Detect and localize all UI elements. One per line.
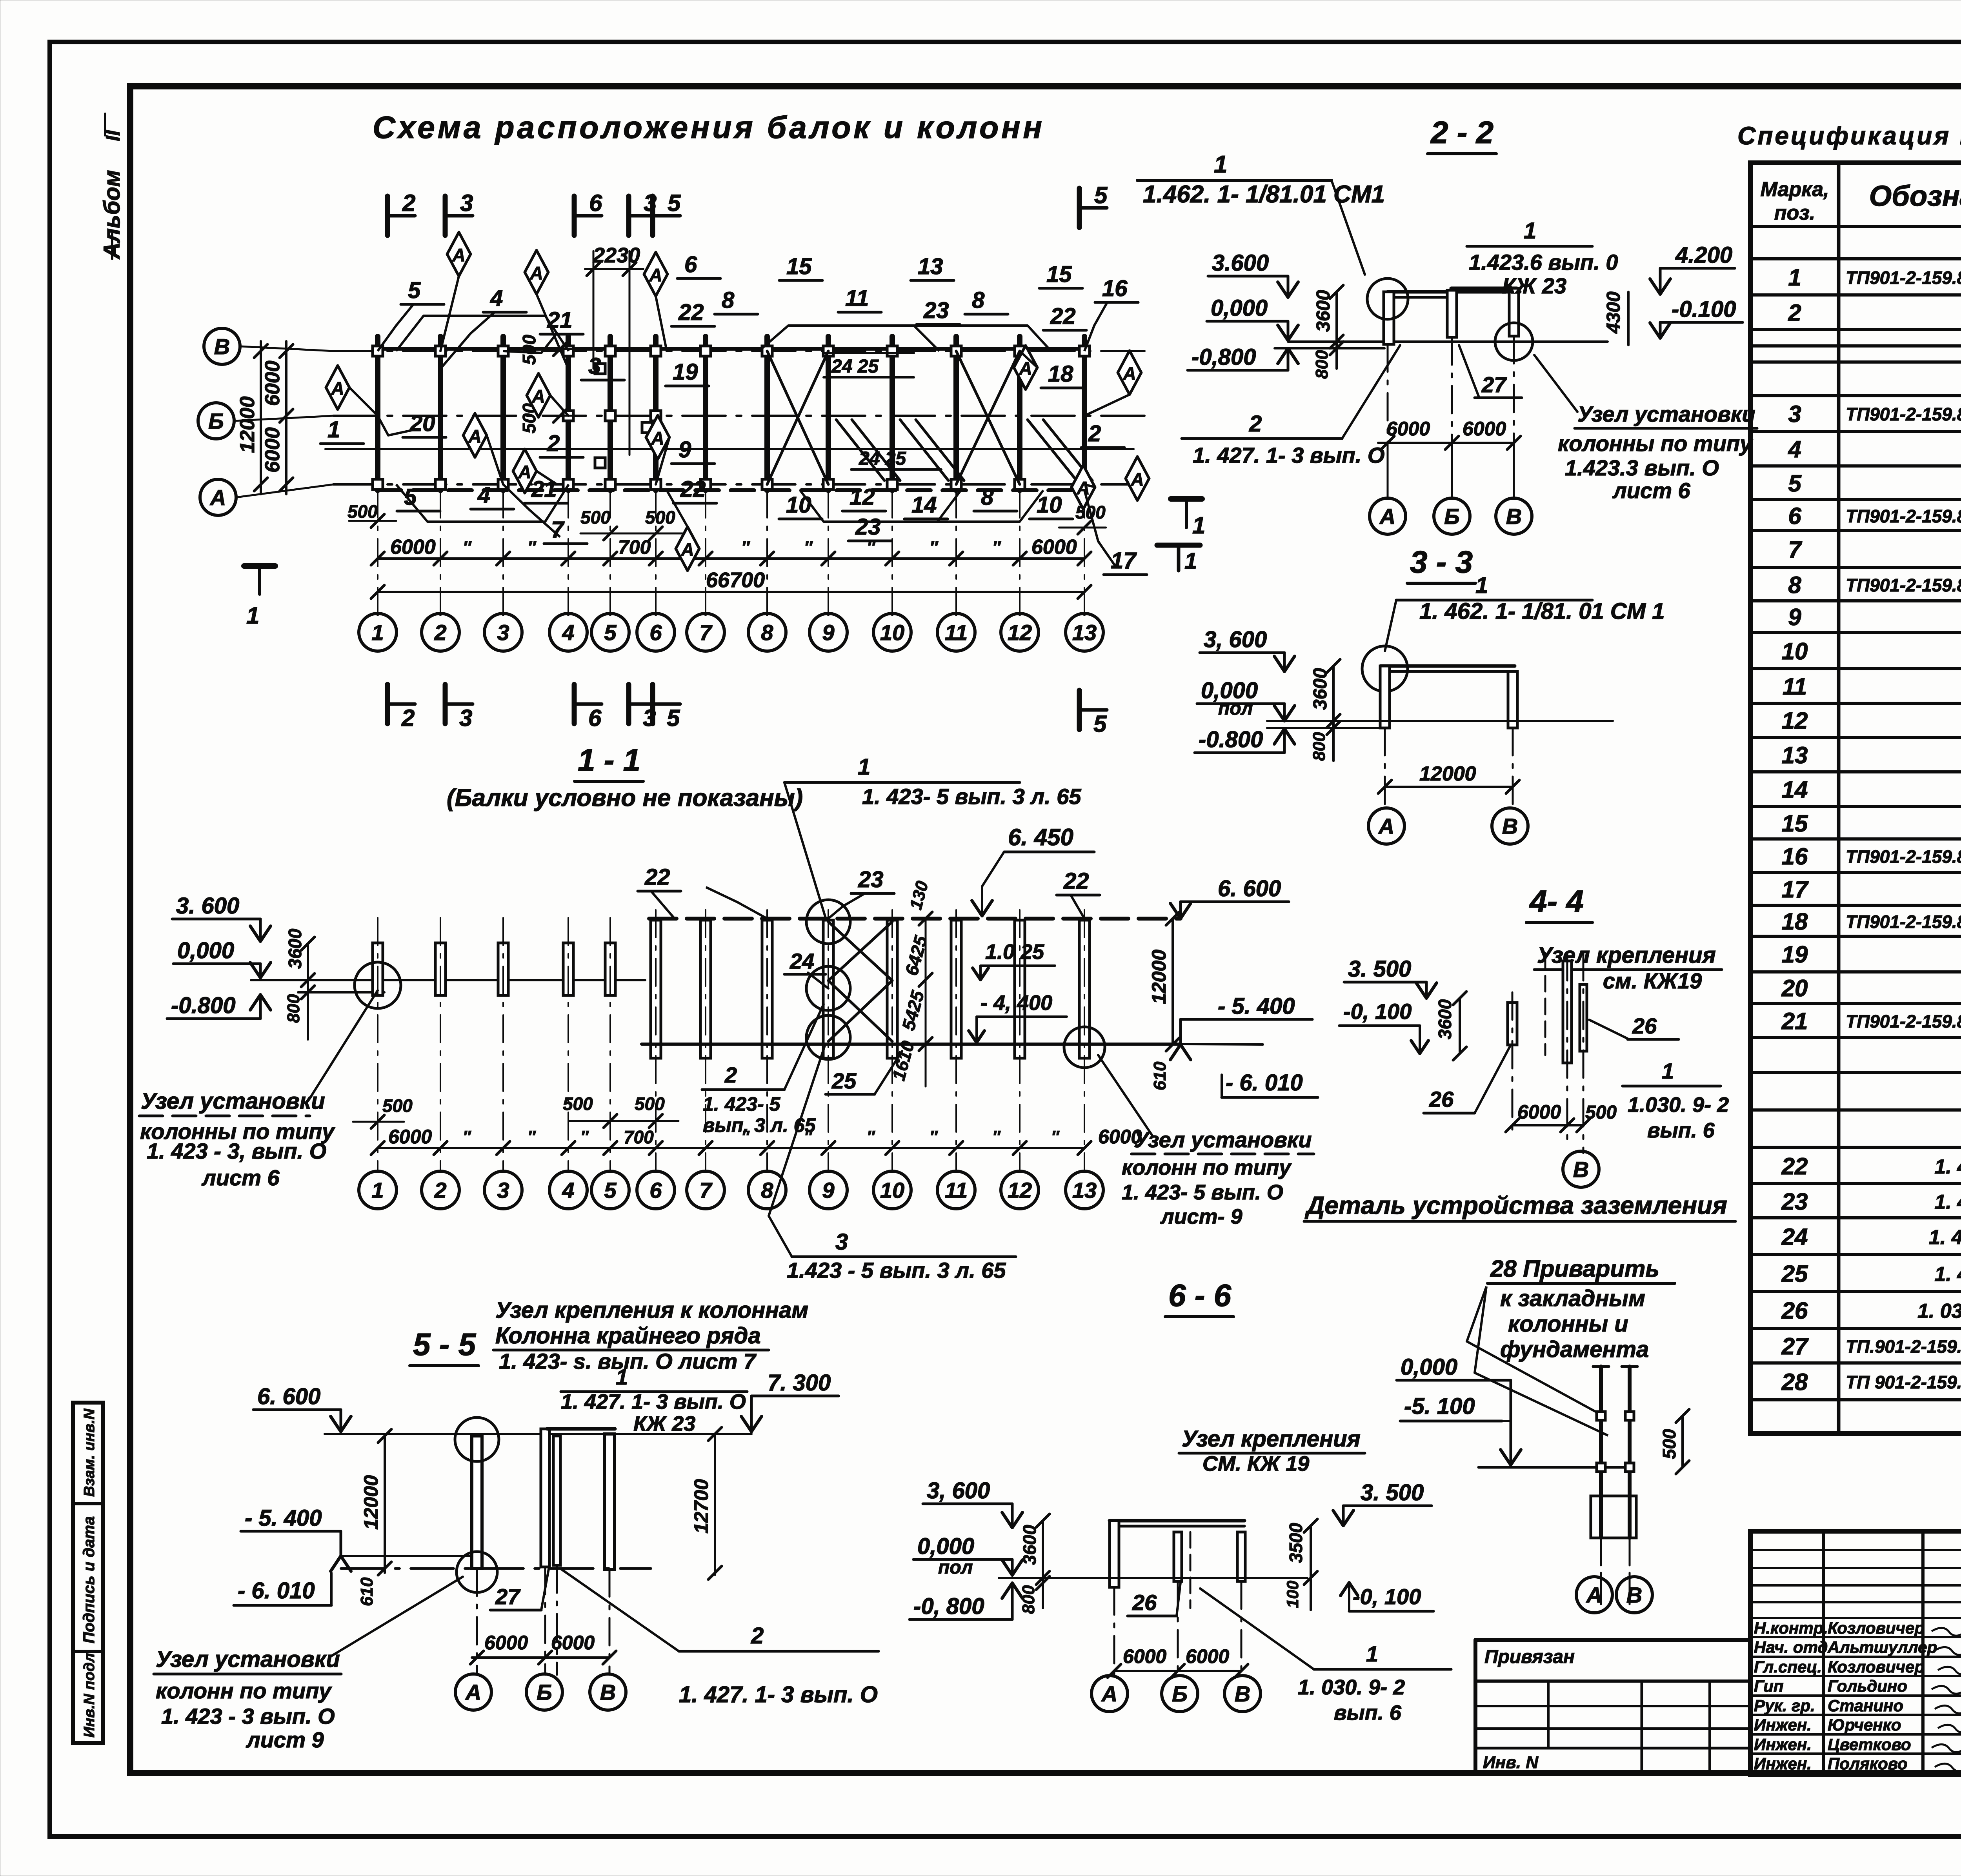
svg-text:18: 18: [1782, 908, 1808, 935]
section 2-2 level line 0.000: [1288, 340, 1608, 343]
svg-text:1: 1: [616, 1365, 628, 1389]
svg-text:1.0 25: 1.0 25: [985, 940, 1044, 964]
svg-text:610: 610: [357, 1577, 377, 1606]
svg-text:10: 10: [1782, 638, 1808, 664]
svg-text:ТП.901-2-159.87-КЖ.И. 8010: ТП.901-2-159.87-КЖ.И. 8010: [1846, 1336, 1961, 1357]
grounding bubbles А В: [1576, 1577, 1612, 1613]
svg-text:23: 23: [1781, 1188, 1808, 1215]
svg-text:-0.100: -0.100: [1672, 297, 1736, 322]
plan grid column line 6: [653, 337, 659, 490]
svg-text:1: 1: [1788, 264, 1801, 291]
svg-text:А: А: [1378, 814, 1394, 839]
svg-text:28: 28: [1781, 1369, 1808, 1395]
section 5-5 dims 6000 6000: [472, 1656, 609, 1659]
svg-text:-0.800: -0.800: [171, 993, 235, 1018]
svg-text:4: 4: [490, 286, 503, 311]
svg-text:14: 14: [1782, 777, 1808, 803]
svg-text:3: 3: [497, 620, 509, 645]
svg-text:″: ″: [930, 538, 939, 557]
svg-text:Деталь устройства заземлени: Деталь устройства заземления: [1304, 1191, 1727, 1219]
svg-text:1: 1: [858, 754, 870, 780]
grounding column bars: [1599, 1367, 1603, 1538]
plan grid column line 7: [703, 337, 708, 490]
svg-text:В: В: [1506, 504, 1522, 529]
svg-text:1. 423 - 3, вып. О: 1. 423 - 3, вып. О: [147, 1139, 326, 1163]
svg-text:12: 12: [1008, 620, 1032, 645]
svg-text:Инжен.: Инжен.: [1754, 1716, 1812, 1734]
svg-text:12000: 12000: [360, 1475, 382, 1530]
svg-text:лист 6: лист 6: [1612, 478, 1691, 503]
svg-text:В: В: [600, 1680, 616, 1705]
plan grid column line 5: [608, 337, 613, 490]
section 5-5 dim 12000: [384, 1434, 386, 1573]
svg-text:27: 27: [1781, 1333, 1809, 1359]
svg-text:Б: Б: [1444, 504, 1460, 529]
svg-text:2 - 2: 2 - 2: [1430, 115, 1493, 150]
section 2-2 node circle right: [1495, 323, 1533, 360]
svg-text:7: 7: [699, 620, 713, 645]
svg-text:Альтшуллер: Альтшуллер: [1827, 1638, 1937, 1656]
svg-text:17: 17: [1782, 876, 1809, 903]
svg-text:500: 500: [519, 335, 539, 365]
svg-text:800: 800: [284, 994, 303, 1023]
section 5-5 beam top: [547, 1427, 615, 1431]
svg-text:2230: 2230: [593, 244, 640, 267]
plan row bubble Б: [198, 403, 234, 439]
svg-text:11: 11: [945, 1178, 968, 1203]
svg-text:2: 2: [434, 620, 446, 645]
svg-text:Марка,: Марка,: [1761, 178, 1829, 201]
title block outer: [1750, 1531, 1961, 1775]
svg-text:20: 20: [1781, 975, 1808, 1001]
plan X brace bay 8-9: [767, 351, 828, 484]
svg-text:3600: 3600: [285, 928, 305, 969]
svg-text:25: 25: [831, 1068, 857, 1093]
svg-text:колонны и: колонны и: [1508, 1311, 1628, 1337]
svg-text:3: 3: [588, 353, 601, 379]
plan flag leaders: [440, 276, 459, 351]
section 1-1 bubbles 1-13: [359, 1171, 397, 1209]
svg-text:2: 2: [1088, 421, 1101, 446]
section 6-6 left column: [1110, 1521, 1119, 1587]
svg-text:-0, 100: -0, 100: [1353, 1584, 1421, 1609]
svg-text:3: 3: [459, 705, 472, 731]
svg-text:Узел крепления к колоннам: Узел крепления к колоннам: [495, 1297, 808, 1323]
svg-text:1: 1: [246, 602, 259, 629]
svg-text:6000: 6000: [1186, 1645, 1229, 1667]
svg-text:к закладным: к закладным: [1500, 1286, 1645, 1311]
svg-text:2: 2: [434, 1178, 446, 1203]
svg-text:1. 423- 5 вып. О: 1. 423- 5 вып. О: [1122, 1181, 1283, 1204]
plan node square row Б: [605, 411, 615, 421]
svg-text:1. 427. 1- 3 вып. О: 1. 427. 1- 3 вып. О: [561, 1390, 746, 1414]
svg-text:4.200: 4.200: [1675, 242, 1732, 268]
svg-text:12: 12: [1782, 708, 1808, 734]
section 2-2 column right: [1509, 288, 1519, 336]
svg-text:500: 500: [382, 1095, 413, 1116]
svg-text:21: 21: [531, 477, 557, 502]
svg-text:1: 1: [1184, 548, 1197, 574]
plan bottom-right cut mark 5: [1077, 690, 1082, 730]
svg-text:колонны по типу: колонны по типу: [1558, 431, 1753, 456]
svg-text:66700: 66700: [706, 568, 765, 592]
svg-text:Б: Б: [1172, 1681, 1188, 1706]
svg-text:3: 3: [497, 1178, 509, 1203]
svg-text:ТП901-2-159.87. КЖ.И. 8300: ТП901-2-159.87. КЖ.И. 8300: [1846, 575, 1961, 595]
section 5-5 dim 12700: [714, 1434, 716, 1575]
grounding footing box: [1591, 1496, 1636, 1538]
svg-text:Гольдино: Гольдино: [1828, 1677, 1907, 1695]
svg-text:16: 16: [1782, 843, 1808, 870]
plan leader polylines: [378, 304, 413, 351]
svg-text:1: 1: [371, 620, 384, 645]
svg-text:9: 9: [679, 437, 691, 462]
plan grid column line 9: [826, 337, 831, 490]
plan row line А: [333, 483, 1155, 486]
svg-text:″: ″: [992, 1127, 1001, 1146]
svg-text:6: 6: [589, 190, 602, 216]
section 6-6 floor line: [999, 1577, 1307, 1579]
svg-text:В: В: [214, 334, 230, 359]
svg-text:колонн по типу: колонн по типу: [156, 1678, 332, 1703]
svg-text:8: 8: [761, 620, 773, 645]
svg-text:ТП901-2-159.87-КЖ.И. 8500: ТП901-2-159.87-КЖ.И. 8500: [1846, 912, 1961, 932]
svg-text:13: 13: [1072, 620, 1097, 645]
svg-text:22: 22: [1781, 1153, 1808, 1179]
svg-text:22: 22: [1050, 304, 1076, 329]
section 5-5 level line bottom: [341, 1555, 472, 1557]
svg-text:Юрченко: Юрченко: [1828, 1716, 1901, 1734]
svg-text:3.600: 3.600: [1212, 250, 1269, 276]
svg-text:А: А: [1122, 363, 1136, 384]
svg-text:″: ″: [528, 1127, 536, 1146]
svg-text:6. 600: 6. 600: [1218, 876, 1281, 901]
svg-text:4: 4: [477, 482, 490, 508]
plan X brace bay 11-12: [956, 351, 1020, 484]
svg-text:А: А: [1076, 478, 1090, 498]
grounding ground line: [1479, 1466, 1629, 1469]
svg-text:Н.контр.: Н.контр.: [1754, 1619, 1828, 1637]
plan dim row 66700: [378, 591, 1084, 593]
section 6-6 right column: [1237, 1532, 1245, 1581]
section 3-3 node circle: [1362, 646, 1408, 691]
section 1-1 node circle col1: [355, 962, 401, 1008]
svg-text:А: А: [649, 265, 662, 285]
plan upper chord polyline left: [396, 316, 569, 351]
svg-text:500: 500: [1585, 1102, 1617, 1123]
svg-text:10: 10: [786, 492, 811, 518]
section 6-6 dim 3600 800: [1042, 1521, 1044, 1608]
svg-text:А: А: [331, 378, 344, 398]
svg-text:5: 5: [1093, 711, 1107, 737]
svg-text:5: 5: [408, 278, 421, 303]
section 2-2 column mid pair: [1447, 290, 1457, 337]
svg-text:19: 19: [1782, 941, 1808, 968]
svg-text:7: 7: [699, 1178, 713, 1203]
svg-text:А: А: [518, 462, 531, 482]
svg-text:6000: 6000: [1031, 536, 1077, 559]
svg-text:6. 600: 6. 600: [257, 1384, 320, 1409]
plan cut mark 1 left: [244, 563, 275, 569]
spec table outer: [1750, 163, 1961, 1434]
svg-text:1. 427. 1- 3 вып. О: 1. 427. 1- 3 вып. О: [679, 1682, 878, 1707]
svg-text:(Балки условно не показаны): (Балки условно не показаны): [447, 784, 803, 812]
svg-text:0,000: 0,000: [1401, 1354, 1457, 1380]
svg-text:5: 5: [604, 620, 617, 645]
svg-text:2: 2: [724, 1063, 737, 1087]
svg-text:500: 500: [580, 507, 611, 528]
svg-text:А: А: [209, 485, 226, 510]
svg-text:27: 27: [1481, 372, 1507, 397]
svg-text:8: 8: [722, 287, 735, 313]
svg-text:ТП901-2-159.87-КЖ.И.8100-03: ТП901-2-159.87-КЖ.И.8100-03: [1846, 1011, 1961, 1032]
svg-text:23: 23: [855, 514, 881, 540]
section 2-2 beam right: [1451, 287, 1517, 290]
spec table row lines: [1750, 225, 1961, 228]
svg-text:1: 1: [371, 1178, 384, 1203]
svg-text:22: 22: [680, 477, 706, 502]
svg-text:7: 7: [1788, 537, 1802, 563]
title block signature columns: [1822, 1531, 1825, 1772]
svg-text:3. 500: 3. 500: [1348, 956, 1411, 982]
svg-text:610: 610: [1150, 1061, 1170, 1090]
svg-text:1. 423 - 3 вып. О: 1. 423 - 3 вып. О: [161, 1704, 335, 1729]
section 1-1 dim row: [378, 1147, 1084, 1149]
svg-text:20: 20: [409, 411, 435, 436]
svg-text:колонн по типу: колонн по типу: [1122, 1156, 1292, 1179]
svg-text:А: А: [1586, 1583, 1602, 1607]
svg-text:1. 423- 5 вып. 3 л. 65: 1. 423- 5 вып. 3 л. 65: [862, 784, 1081, 809]
svg-text:″: ″: [741, 1127, 750, 1146]
plan grid column line 1: [375, 337, 380, 490]
plan grid column line 4: [566, 337, 571, 490]
section 1-1 top beam dashed: [649, 917, 1181, 921]
svg-text:5: 5: [667, 705, 680, 731]
svg-text:15: 15: [1782, 810, 1808, 837]
svg-text:Колонна крайнего ряда: Колонна крайнего ряда: [495, 1323, 761, 1348]
svg-text:23: 23: [858, 867, 884, 892]
svg-text:8: 8: [981, 484, 994, 510]
svg-text:28 Приварить: 28 Приварить: [1490, 1256, 1659, 1282]
svg-text:5: 5: [404, 484, 417, 510]
section 1-1 node circle col13: [1064, 1027, 1105, 1068]
svg-text:1. 030. 9- 2: 1. 030. 9- 2: [1298, 1676, 1405, 1699]
svg-text:А: А: [465, 1680, 481, 1705]
svg-text:13: 13: [918, 254, 943, 279]
svg-text:пол: пол: [938, 1557, 973, 1578]
svg-text:5: 5: [604, 1178, 617, 1203]
svg-text:4: 4: [1788, 436, 1801, 462]
svg-text:А: А: [452, 245, 465, 265]
plan cut mark 1 right: [1171, 496, 1202, 502]
svg-text:-0, 100: -0, 100: [1343, 999, 1412, 1024]
svg-text:700: 700: [618, 536, 651, 558]
svg-text:3600: 3600: [1019, 1525, 1040, 1565]
svg-text:Б: Б: [208, 409, 224, 433]
svg-text:1. 030.9- 2 вып.7: 1. 030.9- 2 вып.7: [1917, 1300, 1961, 1323]
svg-text:3 - 3: 3 - 3: [1410, 544, 1473, 579]
svg-text:12000: 12000: [1419, 762, 1476, 785]
svg-text:11: 11: [845, 286, 869, 311]
svg-text:Спецификация к схеме распол: Спецификация к схеме расположения балок …: [1737, 122, 1961, 150]
section 5-5 bubbles: [455, 1674, 491, 1710]
svg-text:12700: 12700: [690, 1479, 712, 1534]
section 1-1 X braces bay 9-10: [828, 922, 892, 981]
svg-text:2: 2: [1788, 300, 1801, 326]
section 2-2 level line foundation: [1275, 347, 1384, 349]
svg-text:12000: 12000: [236, 396, 259, 453]
svg-text:ТП901-2-159.87КЖИ 8100: ТП901-2-159.87КЖИ 8100: [1846, 404, 1961, 424]
svg-text:Взам. инв.N: Взам. инв.N: [81, 1408, 98, 1497]
svg-text:5: 5: [1094, 182, 1108, 208]
svg-text:26: 26: [1781, 1297, 1808, 1324]
svg-text:1: 1: [327, 417, 340, 442]
svg-text:800: 800: [1310, 732, 1329, 761]
svg-text:2: 2: [547, 431, 560, 456]
section 4-4 column left: [1508, 1003, 1517, 1045]
spec table column lines: [1837, 163, 1841, 1434]
svg-text:3, 600: 3, 600: [1204, 627, 1267, 652]
svg-text:А: А: [1130, 469, 1144, 489]
svg-text:см. КЖ19: см. КЖ19: [1603, 968, 1702, 993]
svg-text:1. 423- 5: 1. 423- 5: [703, 1093, 781, 1115]
svg-text:6000: 6000: [261, 427, 284, 473]
svg-text:вып. 6: вып. 6: [1334, 1701, 1402, 1725]
grounding dim 500: [1681, 1416, 1684, 1467]
svg-text:5: 5: [1788, 470, 1802, 497]
svg-text:4: 4: [562, 620, 574, 645]
svg-text:КЖ 23: КЖ 23: [633, 1412, 695, 1436]
svg-text:800: 800: [1019, 1585, 1038, 1614]
svg-text:ТП 901-2-159.87-КЖ -17: ТП 901-2-159.87-КЖ -17: [1846, 1372, 1961, 1392]
section 4-4 columns right pair: [1563, 961, 1572, 1063]
svg-text:А: А: [680, 539, 694, 560]
svg-text:1. 423-5 вып. 3: 1. 423-5 вып. 3: [1934, 1263, 1961, 1286]
section 3-3 lower line: [1267, 727, 1381, 729]
plan grid column line 2: [438, 337, 443, 490]
plan extra node squares mid bay: [595, 364, 605, 374]
svg-text:1.423.3 вып. О: 1.423.3 вып. О: [1565, 455, 1719, 480]
svg-text:-0.800: -0.800: [1199, 727, 1263, 752]
svg-text:3. 600: 3. 600: [176, 893, 239, 919]
svg-text:26: 26: [1429, 1087, 1454, 1112]
svg-text:25: 25: [1781, 1261, 1808, 1287]
section 2-2 dim 6000 6000: [1378, 442, 1513, 444]
svg-text:12: 12: [1008, 1178, 1032, 1203]
section 2-2 column left: [1384, 292, 1394, 344]
plan grid column line 12: [1017, 337, 1022, 490]
plan dim row 6000: [378, 557, 1084, 560]
section 6-6 beam: [1110, 1519, 1244, 1523]
svg-text:6000: 6000: [261, 360, 284, 406]
svg-text:2: 2: [1249, 411, 1262, 437]
svg-text:1: 1: [1524, 218, 1536, 244]
svg-text:Узел установки: Узел установки: [141, 1088, 325, 1114]
svg-text:Рук. гр.: Рук. гр.: [1754, 1696, 1815, 1715]
svg-text:5 - 5: 5 - 5: [413, 1327, 477, 1362]
svg-text:пол: пол: [1218, 698, 1253, 719]
svg-text:Узел установки: Узел установки: [156, 1647, 340, 1672]
svg-text:-5. 100: -5. 100: [1404, 1394, 1475, 1419]
plan upper chord polyline right: [759, 326, 939, 351]
plan node square row Б: [651, 411, 661, 421]
svg-text:6000: 6000: [390, 536, 436, 559]
plan row line В: [333, 350, 1155, 352]
section 2-2 T1 mark: [1157, 543, 1200, 548]
svg-text:6000: 6000: [551, 1632, 595, 1654]
svg-text:В: В: [1235, 1681, 1250, 1706]
svg-text:1.423.6 вып. 0: 1.423.6 вып. 0: [1469, 250, 1618, 275]
svg-text:ТП901-2-159.87КЖ.И. 8400: ТП901-2-159.87КЖ.И. 8400: [1846, 846, 1961, 867]
section 5-5 middle columns: [541, 1429, 549, 1567]
plan row bubble А: [200, 479, 236, 515]
svg-text:- 4, 400: - 4, 400: [980, 991, 1052, 1015]
svg-text:100: 100: [1283, 1581, 1302, 1608]
svg-text:3600: 3600: [1310, 668, 1331, 710]
section 3-3 floor line: [1267, 720, 1613, 722]
svg-text:А: А: [651, 428, 664, 448]
svg-text:″: ″: [804, 1127, 813, 1146]
section 1-1 short columns: [373, 943, 383, 995]
plan grid column line 13: [1082, 337, 1087, 490]
plan beam line row В: [378, 347, 1084, 351]
svg-text:Узел установки: Узел установки: [1577, 402, 1755, 426]
section 1-1 node circles col 9: [806, 900, 850, 944]
plan node square row Б: [563, 411, 573, 421]
svg-text:А: А: [1101, 1681, 1117, 1706]
svg-text:лист 6: лист 6: [201, 1165, 280, 1190]
svg-text:А: А: [529, 263, 543, 283]
svg-text:А: А: [1379, 504, 1395, 529]
svg-text:500: 500: [1659, 1429, 1679, 1459]
svg-text:1. 423-5 вып. 3: 1. 423-5 вып. 3: [1934, 1191, 1961, 1214]
svg-text:16: 16: [1102, 276, 1128, 301]
plan grid column line 11: [953, 337, 959, 490]
svg-text:Узел установки: Узел установки: [1134, 1127, 1312, 1152]
svg-text:-0,800: -0,800: [1192, 344, 1256, 370]
svg-text:3: 3: [460, 190, 473, 216]
svg-text:14: 14: [911, 492, 937, 518]
plan lower chord polyline right: [800, 490, 961, 522]
section 3-3 bubbles: [1368, 808, 1404, 844]
svg-text:″: ″: [741, 538, 750, 557]
section 5-5 level line top: [325, 1433, 751, 1435]
svg-text:3600: 3600: [1313, 290, 1334, 332]
svg-text:″: ″: [992, 538, 1001, 557]
svg-text:24 25: 24 25: [859, 448, 906, 469]
svg-text:Козловичер: Козловичер: [1828, 1619, 1925, 1637]
svg-text:КЖ 23: КЖ 23: [1502, 273, 1566, 298]
svg-text:12: 12: [850, 484, 875, 510]
svg-text:9: 9: [1788, 604, 1801, 630]
svg-text:12000: 12000: [1148, 950, 1170, 1004]
svg-text:Станино: Станино: [1828, 1696, 1903, 1715]
section 1-1 dim 3600 800: [307, 944, 309, 1039]
bottom-left stamp column: [73, 1403, 103, 1743]
svg-text:19: 19: [673, 359, 698, 385]
plan lower chord polyline left: [396, 484, 569, 522]
svg-text:″: ″: [580, 1127, 589, 1146]
svg-text:″: ″: [463, 1127, 471, 1146]
svg-text:лист 9: лист 9: [246, 1727, 324, 1752]
svg-text:7. 300: 7. 300: [768, 1370, 831, 1396]
section 1-1 bottom chord: [642, 1043, 1181, 1046]
svg-text:вып. 6: вып. 6: [1647, 1119, 1715, 1142]
svg-text:22: 22: [644, 864, 670, 890]
section 6-6 bubbles: [1091, 1676, 1128, 1712]
svg-text:700: 700: [624, 1127, 654, 1147]
svg-text:1: 1: [1475, 573, 1488, 598]
